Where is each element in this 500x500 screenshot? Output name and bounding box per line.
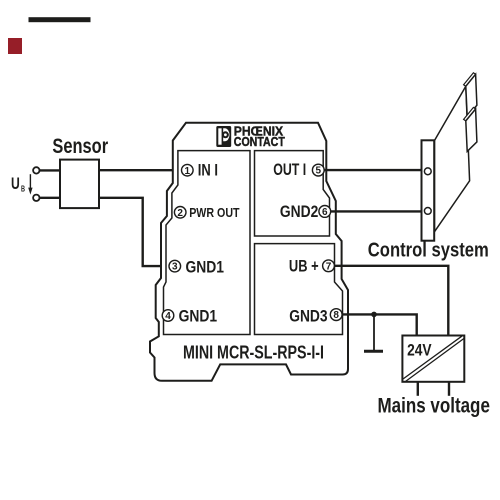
- svg-text:5: 5: [316, 166, 322, 177]
- control system bracket: [422, 140, 435, 240]
- artifact red square top-left: [8, 38, 22, 54]
- node sensor supply bottom circle: [33, 195, 39, 201]
- terminal 5 circle: [312, 164, 324, 176]
- svg-text:6: 6: [322, 207, 328, 218]
- terminal 4 circle: [162, 310, 174, 322]
- svg-text:GND1: GND1: [186, 257, 225, 276]
- terminal 1 circle: [182, 164, 194, 176]
- svg-text:MINI MCR-SL-RPS-I-I: MINI MCR-SL-RPS-I-I: [183, 341, 324, 362]
- wire sensor top to terminal 1: [40, 169, 184, 172]
- terminal 8 circle: [330, 309, 342, 322]
- junction dot on GND3 wire: [371, 312, 377, 318]
- svg-text:UB +: UB +: [289, 256, 319, 275]
- board connector tab 1 lip: [464, 73, 476, 87]
- svg-text:GND2: GND2: [280, 202, 318, 221]
- logo PHOENIX CONTACT text: [234, 123, 285, 149]
- terminal 6 circle: [319, 206, 331, 219]
- svg-text:Mains voltage: Mains voltage: [378, 393, 490, 417]
- svg-text:OUT I: OUT I: [273, 160, 306, 179]
- svg-text:GND3: GND3: [289, 307, 327, 326]
- svg-text:U: U: [11, 175, 20, 193]
- board connector tab 2: [466, 109, 477, 151]
- svg-text:24V: 24V: [407, 340, 432, 359]
- node sensor supply top circle: [33, 167, 39, 173]
- label UB: [11, 175, 25, 193]
- artifact black bar top-left: [29, 17, 91, 22]
- logo PHOENIX CONTACT icon: [216, 126, 231, 147]
- svg-text:8: 8: [333, 310, 339, 321]
- svg-text:CONTACT: CONTACT: [234, 134, 285, 149]
- svg-text:4: 4: [165, 311, 171, 322]
- arrow UB direction: [28, 174, 32, 194]
- board connector tab 1: [466, 74, 477, 116]
- svg-text:Sensor: Sensor: [52, 135, 108, 158]
- svg-text:7: 7: [326, 261, 332, 272]
- terminal 7 circle: [323, 260, 335, 273]
- 24V supply mains stub left: [417, 382, 419, 396]
- terminal block right lower box: [255, 244, 343, 335]
- wire sensor bottom to terminal 3: [40, 198, 171, 266]
- wire terminal 7 to 24V supply: [334, 266, 448, 336]
- svg-text:Control system: Control system: [368, 239, 489, 262]
- bracket hole 1: [424, 168, 431, 175]
- wire terminal 5 to control system: [324, 169, 421, 171]
- svg-text:3: 3: [172, 262, 178, 273]
- terminal block left inner box: [164, 151, 251, 335]
- sensor box: [60, 160, 99, 209]
- module housing silhouette: [150, 123, 348, 381]
- ground symbol: [364, 314, 383, 351]
- svg-text:IN I: IN I: [198, 161, 218, 180]
- svg-text:PWR OUT: PWR OUT: [189, 205, 239, 220]
- control system board: [435, 86, 470, 231]
- terminal 3 circle: [169, 260, 181, 272]
- 24V supply diagonal double line: [403, 336, 464, 381]
- wire terminal 8 to 24V supply: [342, 314, 417, 335]
- svg-text:1: 1: [185, 166, 191, 177]
- board connector tab 2 lip: [464, 107, 476, 121]
- wire terminal 6 to control system: [331, 210, 422, 212]
- bracket hole 2: [424, 208, 431, 215]
- svg-text:2: 2: [177, 208, 183, 219]
- svg-text:GND1: GND1: [179, 307, 218, 326]
- svg-text:B: B: [21, 183, 25, 193]
- terminal 2 circle: [174, 207, 186, 219]
- terminal block right upper box: [255, 151, 330, 236]
- 24V supply mains stub right: [448, 382, 450, 396]
- 24V power supply box: [402, 336, 464, 382]
